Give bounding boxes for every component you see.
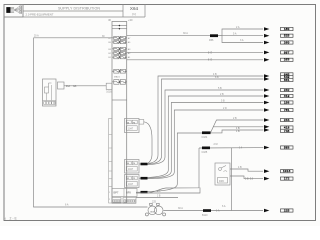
svg-text:2 B: 2 B [220, 93, 224, 96]
splice S4 on 143 wire [202, 147, 210, 150]
ignition switch unit box [215, 163, 230, 185]
wire from block B pin 2 [136, 197, 178, 199]
wire branch to arrow B13 [214, 126, 264, 128]
F1 output stub connector [139, 120, 144, 125]
inter-sheet arrow B3 (wire y=42.5) [264, 41, 269, 45]
destination label boxes [281, 27, 294, 212]
inter-sheet arrow B17 (wire y=178.6) [264, 177, 269, 181]
wire switch pin 2 [230, 176, 263, 179]
svg-text:225: 225 [284, 208, 290, 212]
svg-text:2 B: 2 B [157, 196, 161, 198]
inter-sheet arrow B13 (wire y=126.8) [264, 125, 269, 129]
svg-text:8 B: 8 B [215, 76, 219, 79]
svg-text:997: 997 [284, 50, 290, 54]
destination code box 525 [281, 34, 294, 37]
svg-text:180: 180 [284, 27, 290, 31]
svg-text:2 B: 2 B [233, 117, 237, 120]
harness icon connector body [6, 7, 10, 13]
svg-text:BP7: BP7 [114, 192, 119, 195]
svg-text:1047: 1047 [128, 184, 134, 186]
bottom connector block B [123, 198, 136, 204]
connector strip left of column [109, 119, 112, 204]
fuse holder box F1 on column right [125, 119, 140, 133]
fuse holder box F3 on column right [125, 175, 140, 188]
wire fuse B1 out [127, 59, 263, 61]
svg-text:1016: 1016 [283, 169, 291, 173]
svg-text:R36: R36 [209, 39, 214, 42]
svg-text:BP5: BP5 [126, 192, 131, 195]
inter-sheet arrow B12 (wire y=120) [264, 118, 269, 122]
column partition [112, 99, 127, 101]
harness icon terminal circles [19, 6, 21, 14]
svg-text:156: 156 [284, 100, 290, 104]
svg-text:2 D: 2 D [223, 107, 227, 110]
junction node bus B [118, 28, 120, 30]
destination code box 234 [281, 118, 294, 121]
fuse/relay unit 1016 outline [112, 22, 127, 204]
wire splice S1 to arrow B6 (y76) [148, 76, 264, 164]
svg-text:5 B: 5 B [221, 99, 225, 102]
destination code box 172 [281, 177, 294, 180]
svg-text:2.0 PRE-EQUIPMENT: 2.0 PRE-EQUIPMENT [26, 13, 54, 17]
destination code box 319 [281, 94, 294, 97]
svg-text:C184: C184 [202, 136, 208, 139]
svg-text:6 A: 6 A [65, 204, 69, 207]
svg-text:1 B: 1 B [236, 128, 240, 130]
svg-text:1016: 1016 [106, 90, 112, 93]
svg-text:232: 232 [284, 88, 290, 92]
destination code box 781 [281, 108, 294, 111]
wire branch R36 to arrow B2 (y35.7) [218, 35, 263, 37]
output arrows [264, 27, 269, 212]
splice B110 [203, 209, 211, 212]
destination codes [283, 27, 291, 213]
destination code box 1016 [281, 170, 294, 173]
main supply down wire [34, 38, 148, 207]
svg-text:781: 781 [284, 108, 290, 112]
wire branch R36 to arrow B3 (y42.5) [222, 36, 263, 43]
svg-text:1 A: 1 A [216, 210, 220, 213]
svg-text:D36: D36 [219, 179, 224, 183]
svg-text:1047: 1047 [128, 169, 134, 171]
wire splice S2 to arrow B11 (y110) [148, 110, 264, 179]
svg-text:SUPPLY DISTRIBUTION: SUPPLY DISTRIBUTION [58, 7, 100, 11]
internal +30 bus A [112, 25, 127, 27]
battery terminal 225 [145, 203, 165, 216]
splice S3 [141, 191, 148, 194]
wire splice S3 to riser [148, 148, 200, 193]
svg-text:319: 319 [284, 94, 290, 98]
inter-sheet arrow B8 (wire y=90) [264, 88, 269, 92]
wire fuse B3 out [127, 51, 263, 53]
wire fuse holder F1 to fan [144, 122, 152, 163]
svg-text:2 B 2.0: 2 B 2.0 [245, 179, 254, 181]
title block: harness icon cell [4, 5, 23, 18]
harness icon terminal bar [20, 6, 22, 14]
harness icon fan wires [14, 6, 19, 13]
inter-sheet arrow B15 (wire y=147.5) [264, 146, 269, 150]
svg-text:8 D: 8 D [208, 60, 213, 62]
svg-text:1 B: 1 B [236, 131, 240, 133]
fuse cluster 1 [112, 36, 127, 59]
svg-text:1047: 1047 [128, 128, 134, 130]
svg-text:20 A: 20 A [34, 35, 39, 38]
destination code box 997 [281, 51, 294, 54]
supply bus out right [127, 35, 210, 37]
svg-text:30 A: 30 A [183, 32, 188, 35]
fuse cluster 1 pin labels left [108, 38, 111, 59]
svg-text:2-E: 2-E [10, 216, 18, 220]
wire splice S2 to arrow B9 (y96) [148, 96, 264, 178]
destination code box 263 [281, 58, 294, 61]
svg-text:4 B: 4 B [238, 166, 242, 169]
destination code box 156 [281, 101, 294, 104]
wire F3 to splice S2 [139, 177, 141, 179]
inter-sheet arrow B16 (wire y=171.2) [264, 169, 269, 173]
wire splice S1 to arrow B7 (y79) [148, 79, 264, 164]
bottom connector block A [112, 198, 121, 204]
destination code box 645/649/651 (3 rows) [281, 73, 294, 82]
battery bus wire to arrow [164, 210, 264, 212]
svg-text:2 M: 2 M [214, 143, 218, 146]
relay 1047 box [43, 79, 57, 106]
wire splice S1 to arrow B8 (y90) [148, 90, 264, 165]
svg-text:30 A: 30 A [178, 207, 183, 210]
wire splice S2 to arrow B10 (y102.5) [148, 103, 264, 179]
svg-text:260: 260 [284, 40, 290, 44]
inter-sheet arrow B4 (wire y=52.4) [264, 51, 269, 55]
relay connector stub [58, 82, 65, 89]
inter-sheet arrow B10 (wire y=102.5) [264, 101, 269, 105]
destination code box 260 [281, 41, 294, 44]
wire F2 to splice S1 [139, 163, 141, 165]
title cell line [23, 5, 123, 18]
svg-text:234: 234 [284, 118, 290, 122]
destination code box 225 [281, 209, 294, 212]
svg-text:746: 746 [284, 129, 290, 133]
wire column to splice S3 [136, 191, 141, 193]
inter-sheet arrow B6 (wire y=76) [264, 74, 269, 78]
wire labels on fan outputs [213, 73, 227, 110]
fuse holder box F2 on column right [125, 160, 140, 174]
harness icon wire bundle hatch [11, 8, 14, 13]
inter-sheet arrow B7 (wire y=79) [264, 77, 269, 81]
svg-text:263: 263 [284, 58, 290, 62]
inter-sheet arrow B18 (wire y=210.5) [264, 209, 269, 213]
wire riser to output arrow [199, 147, 263, 149]
svg-text:2 A: 2 A [236, 26, 240, 29]
riser wire to battery bus [231, 148, 233, 211]
svg-text:C185: C185 [202, 151, 208, 154]
inter-sheet arrow B14 (wire y=130) [264, 128, 269, 132]
connector box at fusebox pin [106, 83, 112, 89]
svg-text:5 B: 5 B [218, 87, 222, 90]
wire branch R36 to arrow B1 (y29) [218, 29, 263, 36]
wire branch to arrow B12 [211, 120, 264, 133]
svg-text:+30: +30 [128, 18, 133, 22]
wire switch pin 1 [230, 169, 263, 171]
svg-text:172: 172 [284, 177, 290, 181]
svg-text:5 A: 5 A [233, 32, 237, 35]
inter-sheet arrow B11 (wire y=110) [264, 108, 269, 112]
svg-text:525: 525 [284, 34, 290, 38]
destination code box 232 [281, 88, 294, 91]
svg-text:8 E: 8 E [208, 52, 213, 54]
destination code box 180 [281, 27, 294, 30]
svg-text:3 A: 3 A [240, 39, 244, 42]
splice R36 [210, 34, 218, 37]
X64 cell [123, 5, 145, 18]
svg-text:2 A: 2 A [157, 190, 161, 193]
wire relay to fusebox [64, 85, 106, 87]
inter-sheet arrow B5 (wire y=59.8) [264, 58, 269, 62]
svg-text:6 A: 6 A [222, 205, 226, 208]
svg-text:X64: X64 [130, 6, 139, 11]
wire from block B pin 1 [136, 188, 200, 194]
bottom connector label box BP7/BP5 [112, 189, 137, 197]
inter-sheet arrow B1 (wire y=29) [264, 27, 269, 31]
junction node bus A [118, 25, 120, 27]
splice C184 on feed wire y=133 [202, 131, 211, 134]
title block bottom rule [4, 16, 145, 18]
splice S2 [141, 177, 148, 180]
svg-text:♀: ♀ [4, 216, 7, 221]
svg-text:MAX1: MAX1 [114, 76, 121, 79]
svg-text:583: 583 [284, 145, 290, 149]
svg-text:NO: NO [73, 86, 77, 88]
fuse cluster 2 [112, 69, 127, 84]
destination code box 418/746 (2 rows) [281, 126, 294, 133]
svg-text:B110: B110 [202, 214, 208, 217]
wire splice S3 to splice C184 (y133) [148, 133, 203, 192]
svg-text:225: 225 [152, 200, 157, 203]
inter-sheet arrow B2 (wire y=35.7) [264, 34, 269, 38]
svg-text:20A: 20A [66, 85, 71, 88]
internal +30 bus B [112, 28, 127, 30]
inter-sheet arrow B9 (wire y=96) [264, 94, 269, 98]
left feed wire (30) [34, 37, 113, 39]
splice S1 [141, 163, 148, 166]
fuse cluster 1 pin labels right [128, 37, 131, 59]
svg-text:[1]: [1] [132, 12, 136, 16]
wire branch to arrow B14 [211, 130, 264, 133]
destination code box 583 [281, 146, 294, 149]
svg-text:651: 651 [284, 78, 290, 82]
